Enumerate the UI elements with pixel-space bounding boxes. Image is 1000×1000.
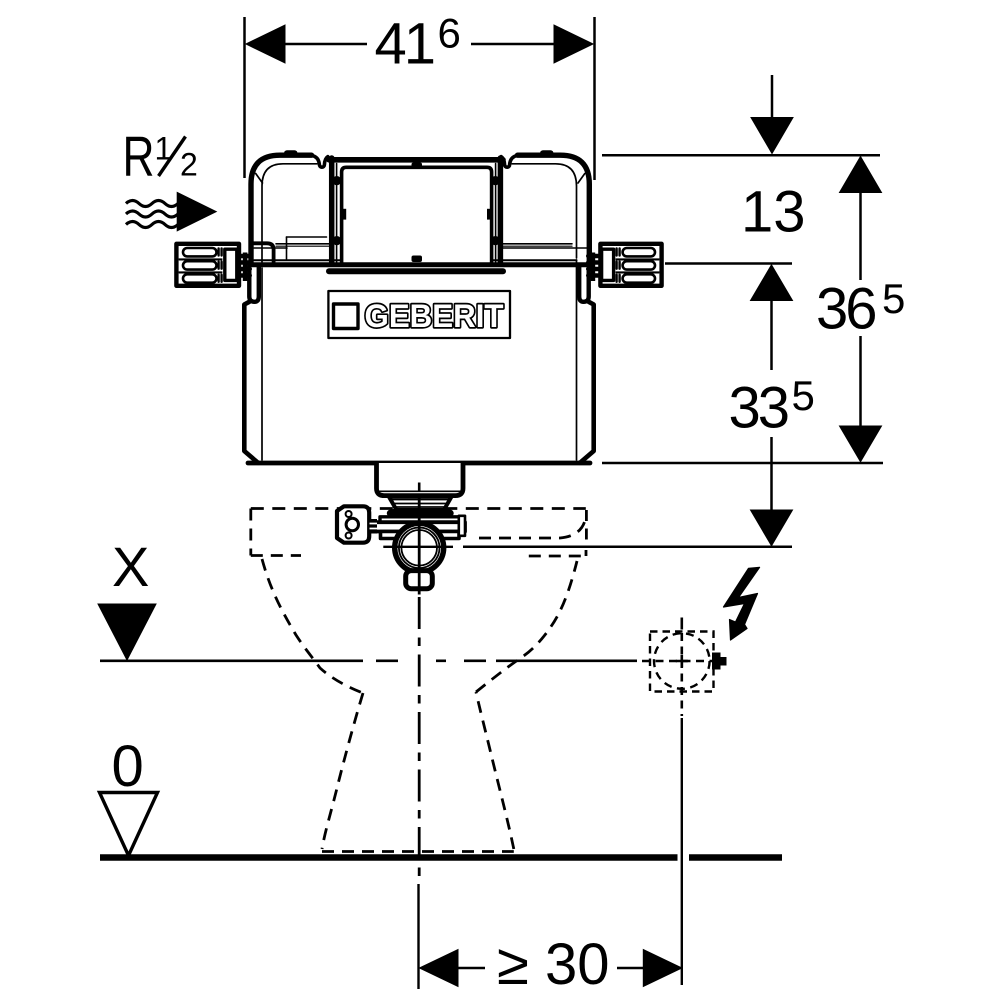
mounting bracket plate at elbow: [337, 506, 369, 542]
reference line A top of tank: [602, 154, 880, 157]
dim >=30 line right segment: [617, 967, 645, 970]
reference line B bracket level: [665, 262, 792, 265]
dim 41-6 line right segment: [471, 43, 556, 46]
svg-text:36: 36: [816, 277, 875, 342]
tank left shoulder inner thin line: [262, 164, 317, 262]
electrical extension vertical line: [681, 718, 683, 985]
tank inner pocket left: [254, 247, 287, 249]
bracket-to-pipe serrated rod: [370, 519, 378, 534]
bracket-to-pipe rod teeth: [370, 524, 378, 529]
right wall bracket nut: [602, 249, 614, 280]
tank fill valve line right: [503, 247, 587, 249]
access frame right post: [498, 158, 504, 264]
water supply wavy line 3: [126, 222, 178, 228]
flush bend elbow inner circle 2: [401, 530, 437, 566]
tank left shoulder corner mold line: [256, 174, 263, 184]
flush bend elbow outer circle: [395, 523, 444, 572]
svg-text:33: 33: [729, 375, 788, 440]
electrical box dashed circle: [654, 633, 710, 689]
toilet bowl dashed outline: top edge: [251, 507, 586, 510]
dim 36-5 line upper segment: [859, 191, 862, 280]
access frame top center tab: [412, 163, 423, 170]
tank inner corner left vertical: [286, 237, 288, 259]
dim 41-6 right extension line: [593, 17, 596, 180]
left wall bracket rod nubs: [240, 256, 249, 276]
electrical box dashed square: [650, 632, 714, 692]
dim 36-5 up arrow: [840, 157, 882, 193]
svg-text:R: R: [123, 125, 155, 189]
dim 33-5 line upper segment: [770, 299, 773, 370]
flush pipe taper: [389, 497, 452, 511]
left wall bracket slot 1: [183, 248, 217, 256]
flush pipe collar left bulge: [387, 509, 396, 516]
right wall bracket slot 3: [623, 274, 655, 282]
tank inner shelf line 1: [276, 243, 572, 245]
geberit logo square: [334, 304, 359, 329]
svg-text:≥ 30: ≥ 30: [497, 932, 609, 997]
svg-text:GEBERIT: GEBERIT: [365, 298, 504, 334]
toilet bowl right curve: [476, 561, 577, 692]
access frame left mid tab: [342, 209, 346, 220]
tank right shoulder notch: [501, 155, 518, 167]
flush bend outlet stub: [406, 571, 433, 589]
X level line dash-dot middle: [376, 659, 486, 662]
svg-text:0: 0: [112, 734, 144, 799]
flush bend pipe bar top: [380, 517, 460, 522]
tank lower box right edge: [580, 302, 594, 463]
floor line left segment: [100, 854, 678, 861]
access frame screw top-left: [332, 176, 341, 185]
tank right shoulder corner mold line: [578, 174, 585, 184]
toilet bowl dashed outline: left step: [251, 554, 301, 557]
left wall bracket row separators: [179, 259, 222, 273]
mounting bracket big hole: [346, 518, 358, 530]
access frame left post: [329, 158, 335, 264]
tank waist line: [250, 262, 589, 267]
flush pipe collar: [394, 510, 448, 517]
left wall bracket nut: [225, 249, 237, 280]
flush valve outlet box: [377, 463, 464, 496]
svg-text:5: 5: [792, 372, 815, 419]
access frame screw top-right: [491, 176, 500, 185]
dim >=30 left arrow: [420, 950, 459, 987]
electrical box cable connector tip: [721, 658, 727, 666]
left wall bracket box: [176, 244, 239, 286]
dim 41-6 left extension line: [243, 17, 246, 178]
tank right shoulder inner thin line: [512, 164, 577, 258]
dim 33-5 line lower segment: [770, 437, 773, 510]
floor line right segment: [689, 854, 782, 861]
frame bottom bar: [329, 268, 503, 274]
left wall bracket thread ticks: [219, 249, 222, 282]
flush pipe collar right bulge: [445, 509, 454, 516]
tank left shoulder notch: [311, 155, 328, 167]
water supply wavy line 1: [126, 201, 178, 207]
access frame screw bottom-left: [332, 236, 341, 245]
dim 36-5 line lower segment: [859, 336, 862, 427]
flush valve outlet box inner line: [379, 490, 461, 492]
dim >=30 line left segment: [456, 967, 485, 970]
elbow crosshair horizontal left: [383, 546, 453, 548]
flush pipe taper rings: [390, 500, 451, 508]
svg-text:13: 13: [741, 180, 806, 245]
right wall bracket thread ticks: [617, 249, 620, 282]
toilet bowl dashed outline: left vertical: [249, 509, 252, 556]
tank left shoulder top bump: [284, 150, 298, 157]
right wall bracket slot 2: [623, 261, 655, 269]
dim 41-6 left arrow: [246, 25, 285, 63]
water supply wavy line 2: [126, 211, 178, 217]
access frame right mid tab: [487, 209, 491, 220]
svg-text:6: 6: [438, 10, 461, 57]
access frame screw bottom-right: [491, 236, 500, 245]
svg-text:X: X: [112, 535, 149, 598]
water supply arrowhead: [177, 192, 216, 230]
dim 13 upper arrow stem: [771, 75, 774, 119]
dim 13 upper arrow: [751, 118, 793, 154]
flush valve centering tick: [418, 483, 421, 492]
reference line C tank bottom: [602, 462, 883, 465]
tank inner shelf line 2: [276, 245, 572, 247]
tank lower box left hook: [249, 264, 258, 302]
electrical box center cross: [676, 655, 688, 667]
tank right shoulder top bump: [540, 150, 554, 157]
flush bend pipe bar bottom: [381, 532, 460, 539]
access frame opening border: [342, 167, 492, 263]
left wall bracket rod shaft: [243, 253, 248, 282]
svg-text:41: 41: [375, 11, 434, 76]
access frame top bar: [329, 157, 503, 163]
svg-text:5: 5: [882, 275, 905, 322]
lightning bolt arrow: [724, 567, 760, 640]
toilet bowl dashed outline: right vertical: [585, 510, 588, 546]
tank lower box inner thin left: [261, 268, 263, 460]
left wall bracket slot 2: [183, 261, 217, 269]
electrical box cable connector: [713, 653, 721, 669]
X level line left solid: [100, 659, 363, 662]
elbow centerline vertical solid: [418, 495, 421, 595]
dim 41-6 line left segment: [283, 43, 367, 46]
access frame bottom center tab: [412, 256, 423, 263]
toilet pedestal right edge: [476, 692, 514, 849]
dim 33-5 down arrow: [751, 510, 793, 546]
flush bend elbow inner circle 1: [399, 528, 440, 569]
tank left shoulder outer outline: [251, 155, 312, 264]
X level line right solid: [496, 659, 637, 662]
tank lower box inner thin right: [576, 260, 578, 460]
dim >=30 right arrow: [643, 950, 682, 987]
tank inner corner left horizontal: [287, 236, 327, 238]
toilet bowl dashed recess line below elbow: [529, 550, 586, 556]
dim 36-5 down arrow: [840, 426, 882, 462]
svg-text:2: 2: [180, 147, 198, 183]
dim 41-6 right arrow: [554, 25, 593, 63]
electrical box crosshair horizontal: [642, 660, 714, 663]
right wall bracket slot 1: [623, 248, 655, 256]
mounting bracket small hole bottom: [346, 533, 352, 539]
right wall bracket row separators: [616, 259, 659, 273]
right wall bracket rod shaft: [591, 253, 596, 282]
electrical box crosshair vertical upper tick: [680, 618, 683, 630]
geberit logo box: [328, 291, 510, 338]
tank inner shelf line 3: [254, 259, 577, 261]
access frame left post inner thin line: [336, 164, 338, 264]
tank bottom edge: [248, 461, 590, 466]
flush bend pipe right end cap: [459, 516, 465, 536]
bowl centerline dash-dot: [418, 597, 421, 881]
right wall bracket rod nubs: [588, 256, 597, 276]
dim >=30 left extension line: [417, 884, 419, 989]
tank right shoulder outer outline: [518, 155, 590, 264]
access frame right post inner thin line: [495, 164, 497, 264]
level 0 open triangle: [100, 793, 158, 856]
toilet pedestal left edge: [322, 693, 363, 849]
tank lower box left edge: [244, 302, 258, 463]
label R1/2 fraction slash: [159, 137, 186, 177]
toilet bowl left curve: [262, 559, 363, 693]
mounting bracket small hole top: [346, 511, 352, 517]
tank pocket step left: [252, 243, 274, 262]
dim 33-5 up arrow: [751, 265, 793, 301]
left wall bracket slot 3: [183, 274, 217, 282]
flush bend pipe bar middle: [375, 522, 466, 531]
toilet pedestal bottom dashed: [322, 850, 514, 853]
electrical box crosshair vertical: [680, 633, 683, 716]
reference line D elbow axis: [463, 546, 792, 549]
right wall bracket box: [600, 244, 661, 286]
level X filled triangle: [98, 604, 156, 660]
toilet bowl dashed inner corner right: [479, 516, 586, 538]
tank lower box right hook: [579, 264, 589, 302]
